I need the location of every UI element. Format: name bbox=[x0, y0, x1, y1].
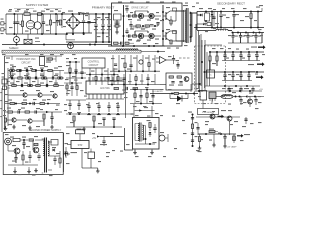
svg-text:+5V LAMP: +5V LAMP bbox=[227, 145, 238, 148]
svg-text:CIRCUIT: CIRCUIT bbox=[89, 64, 99, 67]
svg-text:SECOND POWER SUPPLY: SECOND POWER SUPPLY bbox=[29, 128, 62, 132]
svg-text:SHIELD: SHIELD bbox=[9, 46, 18, 50]
svg-text:HORIZ/VERT OSC: HORIZ/VERT OSC bbox=[16, 59, 36, 61]
svg-text:PRIMARY RECT: PRIMARY RECT bbox=[92, 6, 115, 10]
svg-text:HIC 501: HIC 501 bbox=[100, 86, 110, 90]
svg-text:STR: STR bbox=[78, 144, 83, 147]
svg-text:ISOLATED: ISOLATED bbox=[152, 90, 163, 93]
svg-text:SECONDARY RECT: SECONDARY RECT bbox=[217, 2, 245, 6]
svg-text:DRIVE CIRCUIT: DRIVE CIRCUIT bbox=[132, 8, 150, 10]
svg-text:CIRCUIT: CIRCUIT bbox=[21, 62, 31, 64]
svg-text:DRIVE CIRCUIT: DRIVE CIRCUIT bbox=[132, 28, 150, 30]
svg-text:SUPPLY FILTER: SUPPLY FILTER bbox=[26, 3, 49, 7]
svg-text:5 IN SERIES: 5 IN SERIES bbox=[202, 112, 215, 114]
svg-text:+5V: +5V bbox=[259, 89, 263, 91]
svg-text:+5V: +5V bbox=[92, 138, 97, 140]
